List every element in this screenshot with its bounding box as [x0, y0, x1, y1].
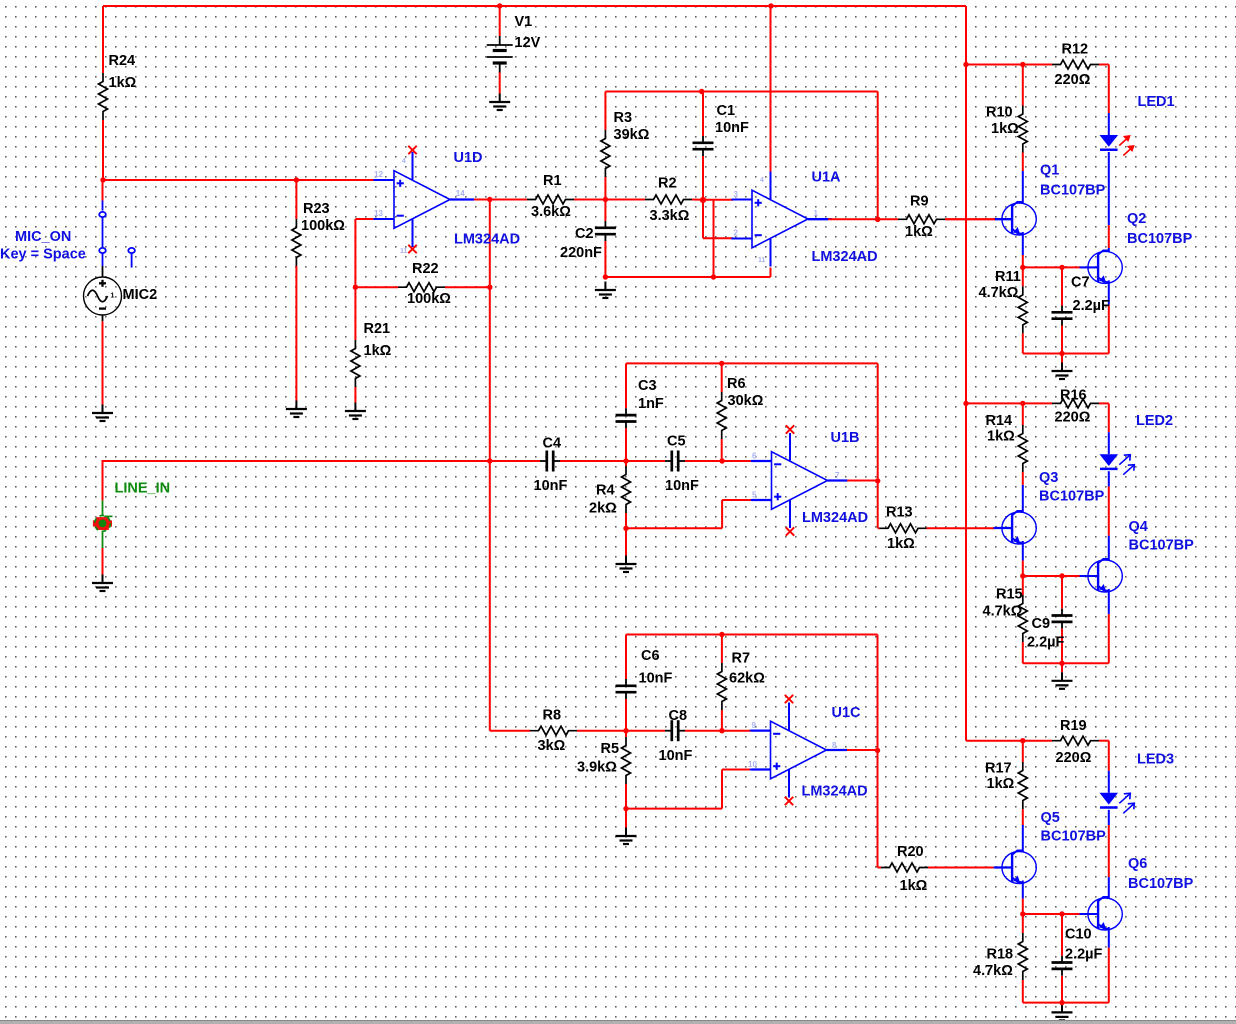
svg-text:11: 11: [758, 257, 766, 264]
svg-text:2.2µF: 2.2µF: [1073, 298, 1111, 314]
svg-text:12: 12: [374, 170, 383, 179]
svg-text:R9: R9: [910, 194, 929, 210]
svg-text:C6: C6: [641, 648, 660, 664]
svg-text:9: 9: [752, 721, 757, 730]
svg-text:Q1: Q1: [1040, 163, 1059, 179]
svg-text:LM324AD: LM324AD: [802, 510, 868, 526]
svg-text:R13: R13: [886, 505, 913, 521]
svg-text:BC107BP: BC107BP: [1127, 231, 1193, 247]
svg-text:4.7kΩ: 4.7kΩ: [983, 604, 1023, 620]
svg-text:R3: R3: [614, 110, 633, 126]
svg-text:11: 11: [400, 248, 408, 255]
svg-text:LM324AD: LM324AD: [802, 784, 868, 800]
svg-text:U1C: U1C: [832, 705, 862, 721]
svg-text:220Ω: 220Ω: [1055, 410, 1091, 426]
svg-text:220nF: 220nF: [560, 245, 602, 261]
svg-text:10: 10: [748, 760, 757, 769]
svg-text:C10: C10: [1065, 927, 1092, 943]
svg-text:C7: C7: [1071, 275, 1090, 291]
svg-text:C1: C1: [717, 103, 736, 119]
svg-text:R1: R1: [543, 173, 562, 189]
svg-text:U1A: U1A: [812, 170, 842, 186]
svg-text:LM324AD: LM324AD: [454, 232, 520, 248]
svg-text:4.7kΩ: 4.7kΩ: [979, 285, 1019, 301]
svg-text:C9: C9: [1032, 616, 1051, 632]
svg-text:10nF: 10nF: [665, 478, 699, 494]
svg-text:R19: R19: [1060, 718, 1087, 734]
svg-text:R12: R12: [1062, 42, 1089, 58]
svg-text:3: 3: [734, 190, 739, 199]
svg-text:1kΩ: 1kΩ: [364, 343, 392, 359]
svg-text:2.2µF: 2.2µF: [1027, 635, 1065, 651]
svg-text:1: 1: [814, 209, 819, 218]
svg-text:100kΩ: 100kΩ: [301, 218, 345, 234]
svg-text:Key = Space: Key = Space: [0, 247, 86, 263]
svg-text:10nF: 10nF: [534, 478, 568, 494]
svg-text:10nF: 10nF: [639, 671, 673, 687]
svg-text:2: 2: [734, 229, 739, 238]
svg-text:1kΩ: 1kΩ: [987, 429, 1015, 445]
svg-text:R17: R17: [985, 761, 1012, 777]
svg-text:220Ω: 220Ω: [1056, 750, 1092, 766]
svg-text:100kΩ: 100kΩ: [407, 291, 451, 307]
svg-text:4: 4: [760, 177, 764, 184]
svg-text:BC107BP: BC107BP: [1129, 538, 1195, 554]
svg-text:Q3: Q3: [1039, 470, 1058, 486]
svg-text:1kΩ: 1kΩ: [905, 224, 933, 240]
svg-text:LED3: LED3: [1137, 752, 1174, 768]
svg-text:C8: C8: [669, 708, 688, 724]
svg-text:Q5: Q5: [1041, 810, 1060, 826]
svg-text:LED1: LED1: [1138, 94, 1175, 110]
svg-text:1kΩ: 1kΩ: [109, 75, 137, 91]
svg-text:1kΩ: 1kΩ: [987, 776, 1015, 792]
svg-text:U1B: U1B: [831, 430, 860, 446]
svg-text:1nF: 1nF: [638, 396, 664, 412]
svg-text:10nF: 10nF: [659, 748, 693, 764]
svg-text:1: 1: [111, 293, 115, 300]
svg-text:LED2: LED2: [1136, 413, 1173, 429]
svg-text:Q2: Q2: [1127, 211, 1146, 227]
svg-text:6: 6: [752, 452, 757, 461]
svg-text:2kΩ: 2kΩ: [589, 501, 617, 517]
svg-text:13: 13: [374, 209, 383, 218]
svg-text:R11: R11: [995, 269, 1021, 285]
svg-text:3.3kΩ: 3.3kΩ: [650, 208, 690, 224]
svg-text:C2: C2: [575, 226, 594, 242]
svg-text:8: 8: [832, 741, 837, 750]
svg-text:2.2µF: 2.2µF: [1065, 947, 1103, 963]
svg-text:MIC_ON: MIC_ON: [15, 229, 71, 245]
svg-text:Q4: Q4: [1129, 519, 1148, 535]
svg-text:U1D: U1D: [454, 150, 483, 166]
svg-text:R15: R15: [996, 587, 1023, 603]
svg-text:R8: R8: [543, 708, 562, 724]
svg-text:3.9kΩ: 3.9kΩ: [577, 760, 617, 776]
svg-text:R5: R5: [601, 741, 620, 757]
svg-text:LM324AD: LM324AD: [812, 249, 878, 265]
svg-text:39kΩ: 39kΩ: [614, 127, 650, 143]
svg-text:LINE_IN: LINE_IN: [115, 481, 171, 497]
svg-text:C3: C3: [638, 378, 657, 394]
svg-text:1kΩ: 1kΩ: [900, 878, 928, 894]
svg-text:C4: C4: [543, 436, 562, 452]
svg-text:R14: R14: [986, 413, 1013, 429]
svg-text:R20: R20: [897, 844, 924, 860]
svg-text:3kΩ: 3kΩ: [538, 738, 566, 754]
svg-text:BC107BP: BC107BP: [1039, 489, 1105, 505]
svg-text:MIC2: MIC2: [123, 287, 158, 303]
svg-text:R4: R4: [596, 483, 615, 499]
svg-text:62kΩ: 62kΩ: [729, 671, 765, 687]
svg-text:BC107BP: BC107BP: [1040, 182, 1106, 198]
svg-text:1kΩ: 1kΩ: [991, 121, 1019, 137]
svg-text:C5: C5: [667, 434, 686, 450]
svg-text:R16: R16: [1060, 388, 1087, 404]
svg-text:R2: R2: [658, 176, 677, 192]
svg-text:4.7kΩ: 4.7kΩ: [973, 963, 1013, 979]
svg-text:BC107BP: BC107BP: [1041, 829, 1107, 845]
svg-text:R10: R10: [986, 105, 1013, 121]
svg-text:5: 5: [752, 491, 757, 500]
svg-text:1kΩ: 1kΩ: [887, 536, 915, 552]
svg-text:14: 14: [456, 189, 465, 198]
svg-text:10nF: 10nF: [715, 120, 749, 136]
svg-text:R22: R22: [412, 261, 439, 277]
svg-text:R7: R7: [732, 651, 751, 667]
svg-text:R24: R24: [109, 53, 136, 69]
svg-text:Q6: Q6: [1128, 856, 1147, 872]
svg-text:V1: V1: [515, 14, 533, 30]
svg-text:4: 4: [402, 158, 406, 165]
svg-text:220Ω: 220Ω: [1055, 72, 1091, 88]
svg-text:BC107BP: BC107BP: [1128, 876, 1194, 892]
svg-text:R18: R18: [987, 947, 1014, 963]
svg-text:R21: R21: [364, 321, 391, 337]
svg-text:7: 7: [835, 471, 840, 480]
svg-text:3.6kΩ: 3.6kΩ: [531, 204, 571, 220]
svg-text:R6: R6: [727, 376, 746, 392]
svg-text:30kΩ: 30kΩ: [728, 393, 764, 409]
svg-text:12V: 12V: [515, 35, 541, 51]
svg-text:R23: R23: [303, 201, 330, 217]
